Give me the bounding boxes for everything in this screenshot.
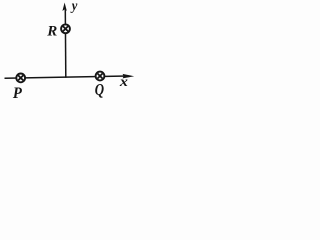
wire symbol R (current into page) — [61, 24, 70, 33]
svg-text:R: R — [46, 23, 57, 39]
svg-text:x: x — [119, 75, 129, 90]
svg-text:P: P — [13, 84, 23, 102]
y-axis arrowhead — [62, 3, 66, 12]
wire y-axis — [64, 10, 67, 78]
wire symbol P (current into page) — [16, 74, 25, 83]
wire x-axis — [5, 76, 128, 78]
background — [0, 0, 137, 107]
wire symbol Q (current into page) — [96, 72, 105, 81]
svg-text:y: y — [70, 0, 78, 13]
svg-text:Q: Q — [95, 82, 105, 100]
x-axis arrowhead — [123, 74, 135, 79]
